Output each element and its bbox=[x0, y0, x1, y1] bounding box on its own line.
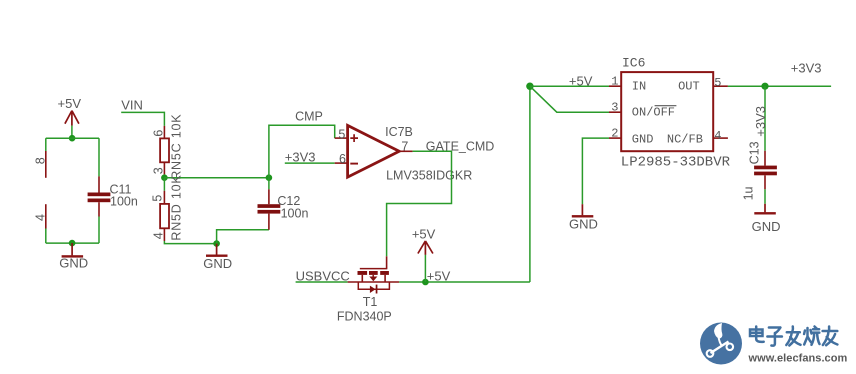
wire +5V riser up to IC6 bbox=[529, 86, 531, 282]
IC6 pin 5 lead bbox=[713, 85, 728, 87]
IC6 pin 1 lead bbox=[609, 85, 621, 87]
wire +3V3 node down to C13 bbox=[764, 86, 766, 151]
supply +5V arrow (center) bbox=[424, 255, 426, 282]
svg-text:ON/OFF: ON/OFF bbox=[632, 106, 675, 120]
svg-text:100n: 100n bbox=[281, 207, 309, 221]
svg-text:IN: IN bbox=[632, 80, 646, 94]
svg-text:6: 6 bbox=[152, 130, 166, 137]
op-amp U1 pin 6 lead bbox=[335, 162, 348, 164]
wire +3V3 stub to op-amp -input bbox=[285, 162, 335, 164]
transistor T1 drain stub bbox=[384, 275, 386, 282]
watermark elecfans logo bbox=[700, 323, 742, 365]
svg-text:LMV358IDGKR: LMV358IDGKR bbox=[386, 168, 472, 182]
supply +5V (left) arrow symbol bbox=[65, 111, 79, 126]
svg-text:IC7B: IC7B bbox=[385, 125, 413, 139]
svg-text:6: 6 bbox=[339, 152, 346, 166]
op-amp U1 pin 5 lead bbox=[335, 137, 348, 139]
wire IC6 pin 2 down to ground bbox=[582, 138, 609, 204]
svg-text:OUT: OUT bbox=[678, 80, 700, 94]
resistor RN5C body bbox=[160, 138, 169, 162]
transistor T1 gate lead bbox=[386, 256, 388, 268]
op-amp minus marker bbox=[350, 163, 358, 165]
watermark chinese text shao bbox=[804, 327, 819, 345]
resistor RN5C pin 3 lead bbox=[163, 162, 165, 174]
wire pin3 node to C12 node bbox=[164, 177, 269, 179]
ground symbol (left block) bbox=[71, 243, 73, 255]
svg-text:5: 5 bbox=[151, 195, 165, 202]
junction +3V3 node bbox=[761, 83, 768, 90]
capacitor C11 top lead bbox=[98, 176, 100, 192]
svg-text:+3V3: +3V3 bbox=[285, 149, 316, 164]
junction node pin3 bbox=[161, 174, 168, 181]
svg-text:GND: GND bbox=[569, 217, 598, 232]
svg-text:4: 4 bbox=[34, 214, 48, 221]
capacitor C11 plates bbox=[88, 193, 111, 197]
wire RN5D to GND node bbox=[164, 241, 216, 244]
wire +5V node to IC6 pin 1 bbox=[530, 85, 609, 87]
capacitor C12 plates bbox=[258, 204, 281, 208]
capacitor C11 bottom lead bbox=[98, 202, 100, 216]
wire top side of left loop bbox=[46, 137, 99, 139]
svg-text:IC6: IC6 bbox=[622, 56, 645, 71]
svg-text:CMP: CMP bbox=[295, 109, 323, 123]
wire GND node up and right to C12 bottom bbox=[217, 230, 269, 244]
svg-text:RN5D 10K: RN5D 10K bbox=[170, 174, 184, 240]
transistor T1 body diode loop bbox=[358, 282, 389, 289]
svg-text:GND: GND bbox=[59, 256, 88, 271]
svg-text:www.elecfans.com: www.elecfans.com bbox=[748, 353, 848, 365]
svg-text:+5V: +5V bbox=[412, 227, 436, 242]
svg-text:NC/FB: NC/FB bbox=[667, 133, 703, 147]
wire CMP node up to op-amp +input bbox=[269, 125, 335, 178]
svg-text:+3V3: +3V3 bbox=[753, 106, 768, 137]
resistor RN5C pin 6 lead bbox=[163, 126, 165, 138]
transistor T1 source stub bbox=[361, 275, 363, 282]
capacitor C12 top lead bbox=[268, 189, 270, 204]
svg-text:C13: C13 bbox=[747, 141, 761, 164]
capacitor C13 plates bbox=[754, 166, 777, 170]
wire left side upper (green) bbox=[45, 138, 47, 151]
watermark chinese text fa bbox=[786, 327, 800, 346]
watermark chinese text dian bbox=[750, 327, 837, 346]
wire bottom side of left loop bbox=[46, 242, 99, 244]
svg-text:5: 5 bbox=[714, 76, 721, 90]
IC6 ON/OFF overline bbox=[655, 105, 677, 107]
transistor T1 source/drain rail bbox=[348, 281, 400, 283]
op-amp IC7B triangle bbox=[348, 125, 400, 177]
svg-text:3: 3 bbox=[611, 101, 618, 115]
pin 8 lead of RN5 supply bbox=[45, 151, 47, 178]
wire node down to C12 bbox=[268, 178, 270, 190]
capacitor C12 bottom lead bbox=[268, 214, 270, 230]
svg-text:2: 2 bbox=[611, 126, 618, 140]
resistor RN5D pin 5 lead bbox=[163, 191, 165, 204]
transistor T1 body diode bbox=[370, 286, 376, 293]
junction top-left node bbox=[69, 135, 76, 142]
wire op-amp output to T1 gate bbox=[387, 151, 452, 256]
svg-text:GND: GND bbox=[632, 133, 654, 147]
wire pin3 node down to RN5D bbox=[163, 178, 165, 191]
op-amp pin 7 output lead bbox=[399, 150, 412, 152]
junction +5V node at T1 bbox=[422, 279, 429, 286]
svg-text:7: 7 bbox=[401, 140, 408, 154]
ground symbol (IC6) bbox=[581, 204, 583, 215]
capacitor C13 top lead bbox=[764, 151, 766, 166]
resistor RN5D pin 4 lead bbox=[163, 228, 165, 241]
op-amp plus marker bbox=[350, 134, 358, 142]
wire right side lower (C11 to bottom) bbox=[98, 217, 100, 244]
transistor T1 gate bar bbox=[360, 268, 388, 270]
wire T1 drain to +5V riser bbox=[399, 281, 530, 283]
IC6 pin 2 lead bbox=[609, 137, 621, 139]
svg-text:4: 4 bbox=[152, 232, 166, 239]
watermark chinese text you bbox=[823, 327, 838, 346]
resistor RN5D body bbox=[160, 204, 169, 228]
svg-text:5: 5 bbox=[338, 127, 345, 141]
svg-text:RN5C 10K: RN5C 10K bbox=[170, 114, 184, 180]
svg-text:FDN340P: FDN340P bbox=[337, 309, 392, 323]
wire VIN to RN5C bbox=[121, 112, 164, 126]
svg-text:100n: 100n bbox=[110, 194, 138, 208]
regulator IC6 body bbox=[621, 72, 713, 151]
svg-text:C12: C12 bbox=[277, 194, 300, 208]
wire USBVCC to T1 source bbox=[296, 281, 348, 283]
IC6 pin 3 lead bbox=[609, 111, 621, 113]
svg-text:LP2985-33DBVR: LP2985-33DBVR bbox=[621, 154, 731, 170]
ground symbol (RN5D) bbox=[216, 244, 218, 255]
svg-text:VIN: VIN bbox=[121, 97, 143, 112]
ground symbol (C13) bbox=[764, 204, 766, 213]
capacitor C13 bottom lead bbox=[764, 175, 766, 189]
svg-text:T1: T1 bbox=[363, 295, 378, 309]
pin 4 lead of RN5 supply bbox=[45, 204, 47, 228]
svg-text:+3V3: +3V3 bbox=[791, 60, 822, 75]
svg-text:+5V: +5V bbox=[58, 96, 82, 111]
svg-text:1: 1 bbox=[611, 74, 618, 88]
svg-text:GND: GND bbox=[752, 219, 781, 234]
junction C12/CMP node bbox=[266, 174, 273, 181]
IC6 pin 4 stub bbox=[713, 137, 728, 139]
svg-text:4: 4 bbox=[714, 129, 721, 143]
junction bottom-left node bbox=[69, 240, 76, 247]
wire left side lower (green) bbox=[45, 229, 47, 244]
wire right side upper (to C11) bbox=[98, 138, 100, 176]
wire diagonal +5V node to IC6 pin 3 bbox=[530, 86, 609, 112]
wire from +5V arrow to node bbox=[71, 126, 73, 139]
junction +5V node at IC6 bbox=[526, 83, 533, 90]
transistor T1 bulk arrow bbox=[372, 275, 374, 277]
svg-text:1u: 1u bbox=[741, 186, 755, 200]
wire IC6 OUT to +3V3 bbox=[728, 85, 831, 87]
watermark chinese text zi bbox=[767, 328, 782, 346]
junction GND node bbox=[213, 240, 220, 247]
svg-text:8: 8 bbox=[34, 157, 48, 164]
svg-text:3: 3 bbox=[152, 167, 166, 174]
wire C13 to ground bbox=[764, 189, 766, 204]
svg-text:+5V: +5V bbox=[427, 268, 451, 283]
transistor T1 channel bars bbox=[358, 271, 368, 275]
svg-text:GND: GND bbox=[203, 256, 232, 271]
